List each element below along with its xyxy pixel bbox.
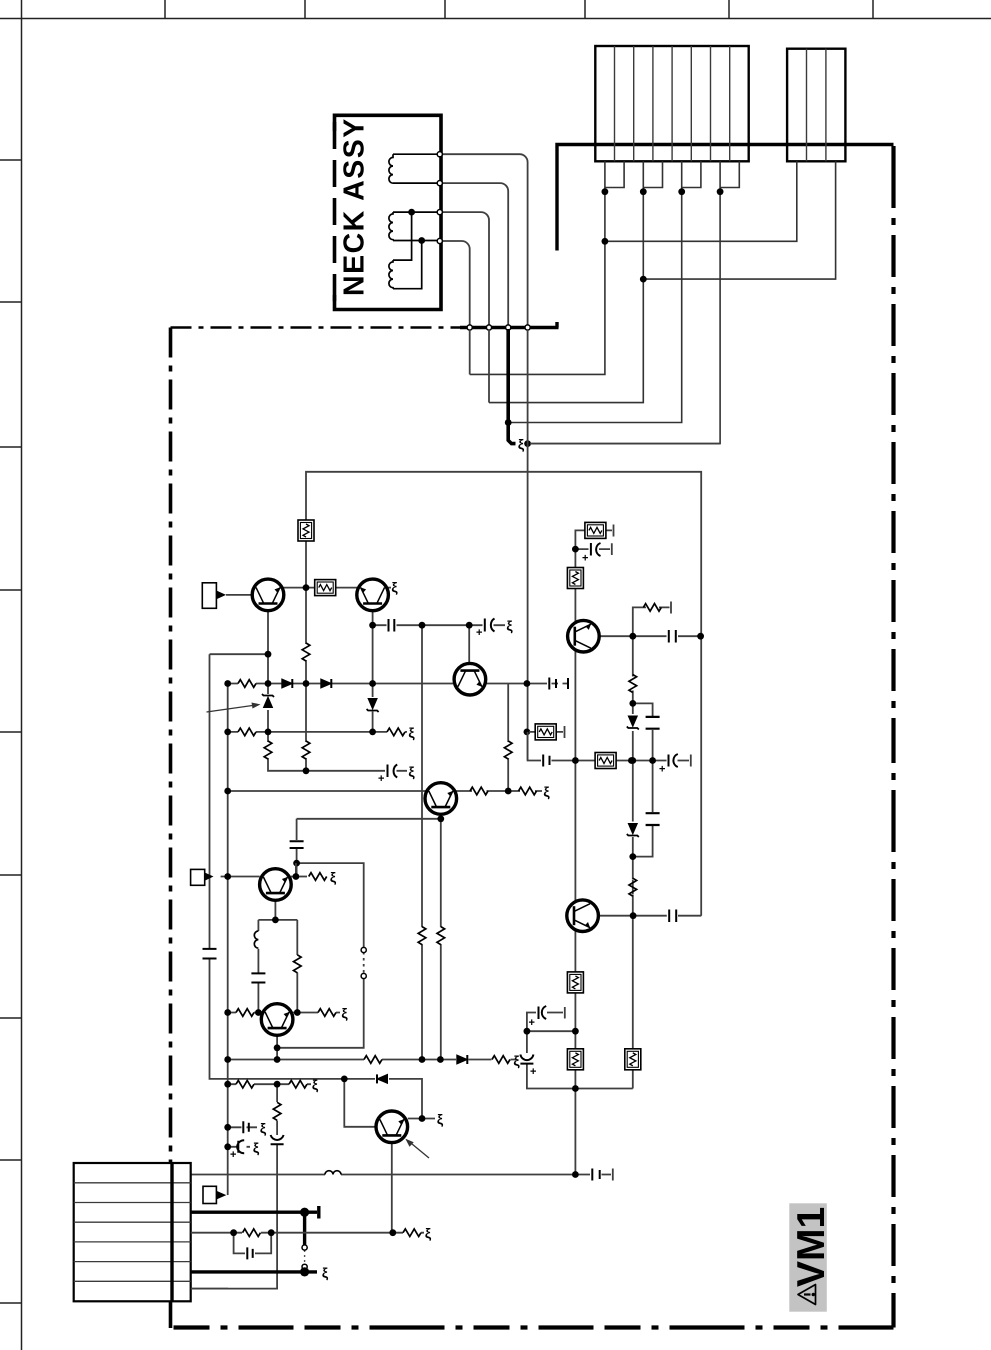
left tick 9	[0, 1302, 22, 1304]
coil L y1174	[325, 1171, 341, 1175]
junction y1031 a	[524, 1028, 531, 1035]
CN3 row divider 3	[74, 1221, 191, 1223]
squiggle Q7 right	[437, 1111, 444, 1127]
junction J2	[265, 651, 272, 658]
wire Q3 right corner down	[507, 684, 509, 792]
terminal 2	[437, 181, 442, 186]
thick wire focus drop	[508, 329, 515, 444]
wire x632 stub row	[633, 602, 671, 637]
cap C RC	[247, 1247, 252, 1259]
left tick 3	[0, 446, 22, 448]
cap C x296	[290, 841, 304, 848]
squiggle y1146	[253, 1139, 260, 1155]
junction Z1	[629, 700, 636, 707]
warning triangle	[798, 1285, 816, 1305]
wire y683 row	[228, 683, 527, 685]
coil L2	[389, 212, 393, 240]
junction K14	[224, 1081, 231, 1088]
wire Q7 base column	[344, 1079, 376, 1127]
boxR x575 upper	[567, 568, 583, 589]
resistor R y683 left	[238, 680, 256, 688]
wire x575 long column	[574, 549, 576, 1174]
left tick 4	[0, 589, 22, 591]
cap C x652 b	[646, 813, 660, 825]
junction x701	[697, 633, 704, 640]
wire y1146 cap stub	[228, 1146, 250, 1148]
wire y1078 row	[344, 1079, 422, 1119]
thick wire jumper column	[303, 1212, 306, 1272]
wire Q6 emitter	[276, 1035, 278, 1060]
wire Q1 emitter column	[268, 611, 306, 771]
thick wire row3	[191, 1206, 319, 1219]
resistor R x306 low	[302, 741, 310, 759]
junction J11	[224, 729, 231, 736]
wire top boxR stub	[575, 525, 613, 550]
junction y1174	[572, 1171, 579, 1178]
junction J18	[437, 815, 444, 822]
wire y1174 long row	[191, 1169, 613, 1181]
terminal 3	[437, 210, 442, 215]
wire pin4 down-left	[530, 192, 720, 444]
junction K5	[255, 1009, 262, 1016]
wire y1084 row	[228, 1083, 311, 1085]
CN divider 3	[652, 46, 654, 161]
resistor R x306 upper (boxed)	[298, 520, 314, 541]
resistor R y1059	[364, 1056, 382, 1064]
wire tap L2 top to L3	[393, 212, 412, 260]
wire	[393, 154, 437, 183]
junction K9	[274, 1056, 281, 1063]
resistor R y1084 left	[236, 1080, 254, 1088]
transistor Q1	[252, 579, 284, 611]
pin P3 symbol	[203, 1186, 216, 1203]
junction J12	[265, 729, 272, 736]
pin P2 symbol	[191, 869, 205, 885]
junction y760 x575	[572, 757, 579, 764]
wire y731 row	[228, 731, 407, 733]
squiggle y1084	[312, 1077, 319, 1093]
wire neck t1 long drop	[527, 330, 529, 761]
top reference border line	[0, 18, 991, 20]
cap C coil	[251, 973, 265, 982]
connector CN3 outline	[74, 1163, 191, 1301]
wire jumper loop	[277, 863, 364, 1048]
svg-text:+: +	[230, 1149, 236, 1161]
wire y1012 row	[228, 1012, 340, 1014]
wire terminal4 to bus	[442, 241, 470, 325]
CN3 column divider (chain border crossing)	[170, 1163, 173, 1301]
diode D y1059	[457, 1055, 468, 1064]
svg-text:+: +	[529, 1017, 535, 1029]
ecap C x527	[520, 1055, 533, 1064]
CN divider 6	[710, 46, 712, 161]
junction J4	[265, 680, 272, 687]
wire ecap top stub	[575, 543, 611, 555]
wire zener cap branch a	[633, 703, 653, 760]
wire y791 row	[228, 790, 542, 792]
wire Q9 right row	[599, 635, 700, 637]
terminal 1	[437, 152, 442, 157]
wire CN2 pin1 to pin bus	[605, 161, 797, 241]
wire Q2 squiggle stub	[388, 587, 391, 589]
junction K8	[224, 1056, 231, 1063]
wire x527 cap column	[527, 1031, 633, 1088]
boxR x575 low	[567, 1049, 583, 1070]
junction J3	[224, 680, 231, 687]
coil L Q5	[254, 931, 258, 948]
resistor R x508	[504, 741, 512, 759]
transistor Q4	[425, 783, 457, 815]
resistor R y1084 right	[289, 1080, 307, 1088]
zener D Q1 col	[262, 694, 274, 708]
junction pin1	[602, 188, 609, 195]
VM1 board boundary right chain line	[891, 146, 895, 1328]
terminal 4	[437, 238, 442, 243]
junction K10	[419, 1056, 426, 1063]
thick wire row6	[191, 1270, 317, 1273]
junction Q9 top	[572, 546, 579, 553]
transistor Q5	[260, 869, 292, 901]
connector CN big outline	[595, 46, 748, 161]
junction J9	[419, 622, 426, 629]
resistor R between Q1 Q2 (boxed)	[315, 580, 336, 596]
thick wire bus over neck terminals	[460, 326, 559, 329]
wire row4	[191, 1232, 424, 1234]
resistor R row4 right	[403, 1229, 421, 1237]
junction K1	[224, 873, 231, 880]
wire pin P1 to Q1	[226, 594, 252, 596]
bus crossing terminal W	[467, 325, 472, 330]
bus crossing terminal Y	[506, 325, 511, 330]
boxR top stub	[585, 522, 606, 538]
junction y1031 b	[572, 1028, 579, 1035]
junction pin2	[640, 188, 647, 195]
wire Q4 bottom row	[297, 815, 441, 819]
svg-text:+: +	[476, 627, 482, 639]
junction CN2a	[602, 238, 609, 245]
wire y442 row to bead	[530, 443, 720, 445]
wire pin1 down-left	[470, 192, 605, 375]
diode D y683 b	[321, 679, 332, 688]
wire row7 handled above	[191, 1288, 228, 1290]
squiggle y1127	[260, 1120, 267, 1136]
boxR x575 mid	[567, 972, 583, 993]
resistor R x632 b	[629, 878, 637, 896]
transistor Q7	[376, 1111, 408, 1143]
resistor R y791 a	[470, 787, 488, 795]
svg-text:+: +	[378, 773, 384, 785]
boxR y760	[595, 753, 616, 769]
wire Q5 emitter split	[258, 901, 297, 920]
squiggle y770	[408, 763, 415, 779]
resistor R y1012 right	[318, 1009, 336, 1017]
resistor R x422	[418, 927, 426, 945]
ecap C y760	[669, 754, 678, 767]
squiggle y731	[408, 724, 415, 740]
wire pin2 down-left	[489, 192, 643, 403]
junction J8	[369, 622, 376, 629]
thick wire riser chain	[555, 146, 558, 328]
wire Q4 emitter column	[440, 819, 442, 1060]
junction J15	[303, 767, 310, 774]
junction K12	[341, 1076, 348, 1083]
junction K11	[437, 1056, 444, 1063]
squiggle y1012	[341, 1005, 348, 1021]
CN3 row divider 4	[74, 1241, 191, 1243]
transistor Q3	[454, 663, 486, 695]
resistor R y1059 b	[492, 1056, 510, 1064]
CN3 row divider 5	[74, 1261, 191, 1263]
junction Q8c	[630, 912, 637, 919]
jumper circle top	[302, 1245, 307, 1250]
resistor R x440	[437, 927, 445, 945]
zener D x632 a	[627, 716, 639, 730]
resistor R y731 left	[238, 728, 256, 736]
junction J19	[293, 860, 300, 867]
junction L3	[389, 1229, 396, 1236]
squiggle bead	[518, 436, 525, 452]
jumper dotted link	[304, 1250, 306, 1265]
coil L1	[389, 154, 393, 183]
wire x277 cap column	[191, 1084, 277, 1288]
junction J1	[303, 584, 310, 591]
pin pair 2 wires	[643, 161, 662, 191]
left tick 8	[0, 1159, 22, 1161]
junction row6	[300, 1267, 309, 1276]
svg-text:VM1: VM1	[790, 1207, 833, 1287]
wire y683 cap stub	[527, 683, 568, 685]
CN2 divider 1	[806, 49, 808, 162]
junction J13	[369, 729, 376, 736]
zener D x632 b	[627, 824, 639, 838]
junction J17	[505, 788, 512, 795]
junction J5	[303, 680, 310, 687]
transistor Q6	[261, 1004, 293, 1036]
wire Q8 right row	[599, 915, 702, 917]
junction L1	[230, 1229, 237, 1236]
resistor R y731 right	[387, 728, 405, 736]
junction K17	[224, 1143, 231, 1150]
diode D y1078 (left)	[377, 1074, 388, 1083]
cap C y760	[543, 755, 549, 767]
wire Q7 right stub	[408, 1118, 435, 1120]
wire CN2 pin3 to pin bus	[643, 161, 835, 279]
resistor R Q5 emitter	[294, 955, 302, 973]
cap C y1127	[243, 1121, 249, 1133]
junction K2	[293, 873, 300, 880]
svg-text:+: +	[582, 553, 588, 565]
wire x296 cap column	[296, 819, 298, 877]
resistor R x306 mid	[302, 643, 310, 661]
resistor R Q5 right	[309, 873, 327, 881]
wire y1127 cap stub	[228, 1126, 257, 1128]
wire neck t3 drop	[488, 330, 490, 403]
VM1 label plate	[789, 1203, 827, 1311]
wire pin3 down-left	[510, 192, 682, 423]
wire y625 row	[373, 624, 505, 626]
left tick 1	[0, 159, 22, 161]
ecap C top stub	[591, 543, 601, 556]
coil L3	[389, 260, 393, 289]
top tick 6	[872, 0, 874, 19]
CN divider 4	[671, 46, 673, 161]
left tick 7	[0, 1017, 22, 1019]
junction K13	[419, 1115, 426, 1122]
cap C y636	[669, 630, 676, 643]
left reference border line	[21, 0, 23, 1350]
jumper circle bottom	[302, 1264, 307, 1269]
junction Z2	[629, 757, 636, 764]
diode D y683 a	[282, 679, 293, 688]
boxR x527 stub	[535, 724, 556, 740]
wire Q5 top right link	[295, 863, 297, 876]
cap C y1174	[592, 1169, 599, 1181]
junction K4	[224, 1009, 231, 1016]
wire y760 row	[528, 732, 691, 767]
left tick 5	[0, 731, 22, 733]
wire Q5 right row	[291, 876, 307, 878]
wire coil branch	[257, 920, 259, 1013]
cap C x652 a	[646, 717, 660, 729]
svg-text:NECK ASSY: NECK ASSY	[339, 117, 371, 296]
wire ecap x527 stub	[527, 1007, 565, 1031]
wire neck t4 drop	[469, 330, 471, 374]
top tick 4	[584, 0, 586, 19]
cap C y625	[389, 619, 395, 632]
CN divider 5	[690, 46, 692, 161]
wire y1059 row	[228, 1059, 516, 1061]
wire Q3 base	[468, 625, 470, 663]
resistor R y1012 left	[236, 1009, 254, 1017]
left tick 6	[0, 874, 22, 876]
resistor R stub y607	[643, 604, 661, 612]
wire zener cap branch b	[633, 761, 653, 857]
junction K7	[274, 1044, 281, 1051]
ecap C y1146	[237, 1140, 244, 1153]
callout arrow Q7	[409, 1142, 429, 1159]
junction CN2b	[640, 276, 647, 283]
callout arrow to zener	[207, 705, 257, 712]
junction pin4	[717, 188, 724, 195]
junction y1088	[572, 1085, 579, 1092]
thick top bus to right border	[555, 143, 893, 146]
wire x209 column with cap	[210, 654, 345, 1079]
junction Z4	[629, 853, 636, 860]
CN3 row divider 6	[74, 1280, 191, 1282]
wire terminal3 to bus	[442, 212, 489, 325]
CN divider 7	[729, 46, 731, 161]
left tick 2	[0, 301, 22, 303]
svg-text:+: +	[659, 764, 665, 776]
junction Z3	[649, 757, 656, 764]
wire inner loop top	[306, 472, 701, 916]
top tick 3	[444, 0, 446, 19]
wire x422 long column	[421, 625, 423, 1059]
junction Q9c	[629, 633, 636, 640]
ecap C y1012	[539, 1006, 547, 1019]
VM1 board boundary top chain line	[171, 326, 461, 329]
wire y654 row	[210, 653, 269, 655]
ecap C x277	[271, 1135, 284, 1144]
junction K16	[224, 1124, 231, 1131]
squiggle y791	[543, 784, 550, 800]
node tap A	[408, 209, 415, 216]
wire resistor branch	[296, 920, 298, 1013]
top tick 2	[304, 0, 306, 19]
CN divider 2	[633, 46, 635, 161]
pin pair 3 wires	[682, 161, 701, 191]
wire terminal2 to bus	[442, 183, 508, 325]
resistor R Q1 emitter	[264, 741, 272, 759]
resistor R row4	[243, 1229, 261, 1237]
junction L2	[268, 1229, 275, 1236]
junction K6	[294, 1009, 301, 1016]
CN3 row divider 2	[74, 1202, 191, 1204]
junction K3	[272, 917, 279, 924]
junction J10	[466, 622, 473, 629]
node tap B	[418, 237, 425, 244]
svg-text:+: +	[530, 1066, 536, 1078]
wire x227 long column	[227, 684, 229, 1196]
bus crossing terminal X	[486, 325, 491, 330]
jumper circle bottom	[361, 973, 366, 978]
bus crossing terminal Z	[525, 325, 530, 330]
wire x632 resistor row	[632, 880, 634, 895]
top tick 1	[164, 0, 166, 19]
wire pin P2 to Q5	[221, 876, 260, 878]
wire	[393, 212, 437, 240]
squiggle ecap x527	[513, 1052, 520, 1068]
pin pair 1 wires	[605, 161, 624, 191]
junction pin3	[678, 188, 685, 195]
wire x632 column	[632, 636, 634, 1088]
junction K15	[274, 1081, 281, 1088]
wire RC loop	[234, 1233, 272, 1254]
VM1 board boundary bottom chain line	[171, 1325, 894, 1329]
transistor Q8	[567, 900, 599, 932]
zener D Q2 col	[367, 699, 379, 713]
CN3 row divider 1	[74, 1182, 191, 1184]
squiggle Q2	[391, 579, 398, 595]
wire y770 row	[306, 770, 407, 772]
pin P1 symbol	[202, 583, 216, 609]
cap C y915	[669, 910, 676, 923]
junction row3	[300, 1208, 309, 1217]
squiggle row4	[425, 1225, 432, 1241]
VM1 board boundary left chain line lower stub	[169, 1301, 173, 1328]
squiggle row6	[322, 1264, 329, 1280]
transistor Q2	[357, 579, 389, 611]
ecap C y770	[388, 765, 398, 778]
jumper circle top	[361, 947, 366, 952]
wire y1031 row	[527, 1030, 576, 1032]
junction bead	[524, 440, 531, 447]
wire x306 column	[305, 541, 307, 771]
junction J7	[524, 680, 531, 687]
CN2 divider 2	[825, 49, 827, 162]
NECK ASSY enclosure box	[335, 115, 442, 309]
wire Q2 emitter column	[372, 611, 374, 732]
junction y760 x632	[628, 757, 635, 764]
top tick 5	[728, 0, 730, 19]
connector CN2 small outline	[787, 49, 845, 162]
CN divider 1	[614, 46, 616, 161]
pin pair 4 wires	[720, 161, 739, 191]
cap C y683	[549, 678, 568, 690]
boxR x632 low	[625, 1049, 641, 1070]
squiggle y625	[506, 618, 513, 634]
wire Q1-Q2 row	[283, 587, 358, 589]
